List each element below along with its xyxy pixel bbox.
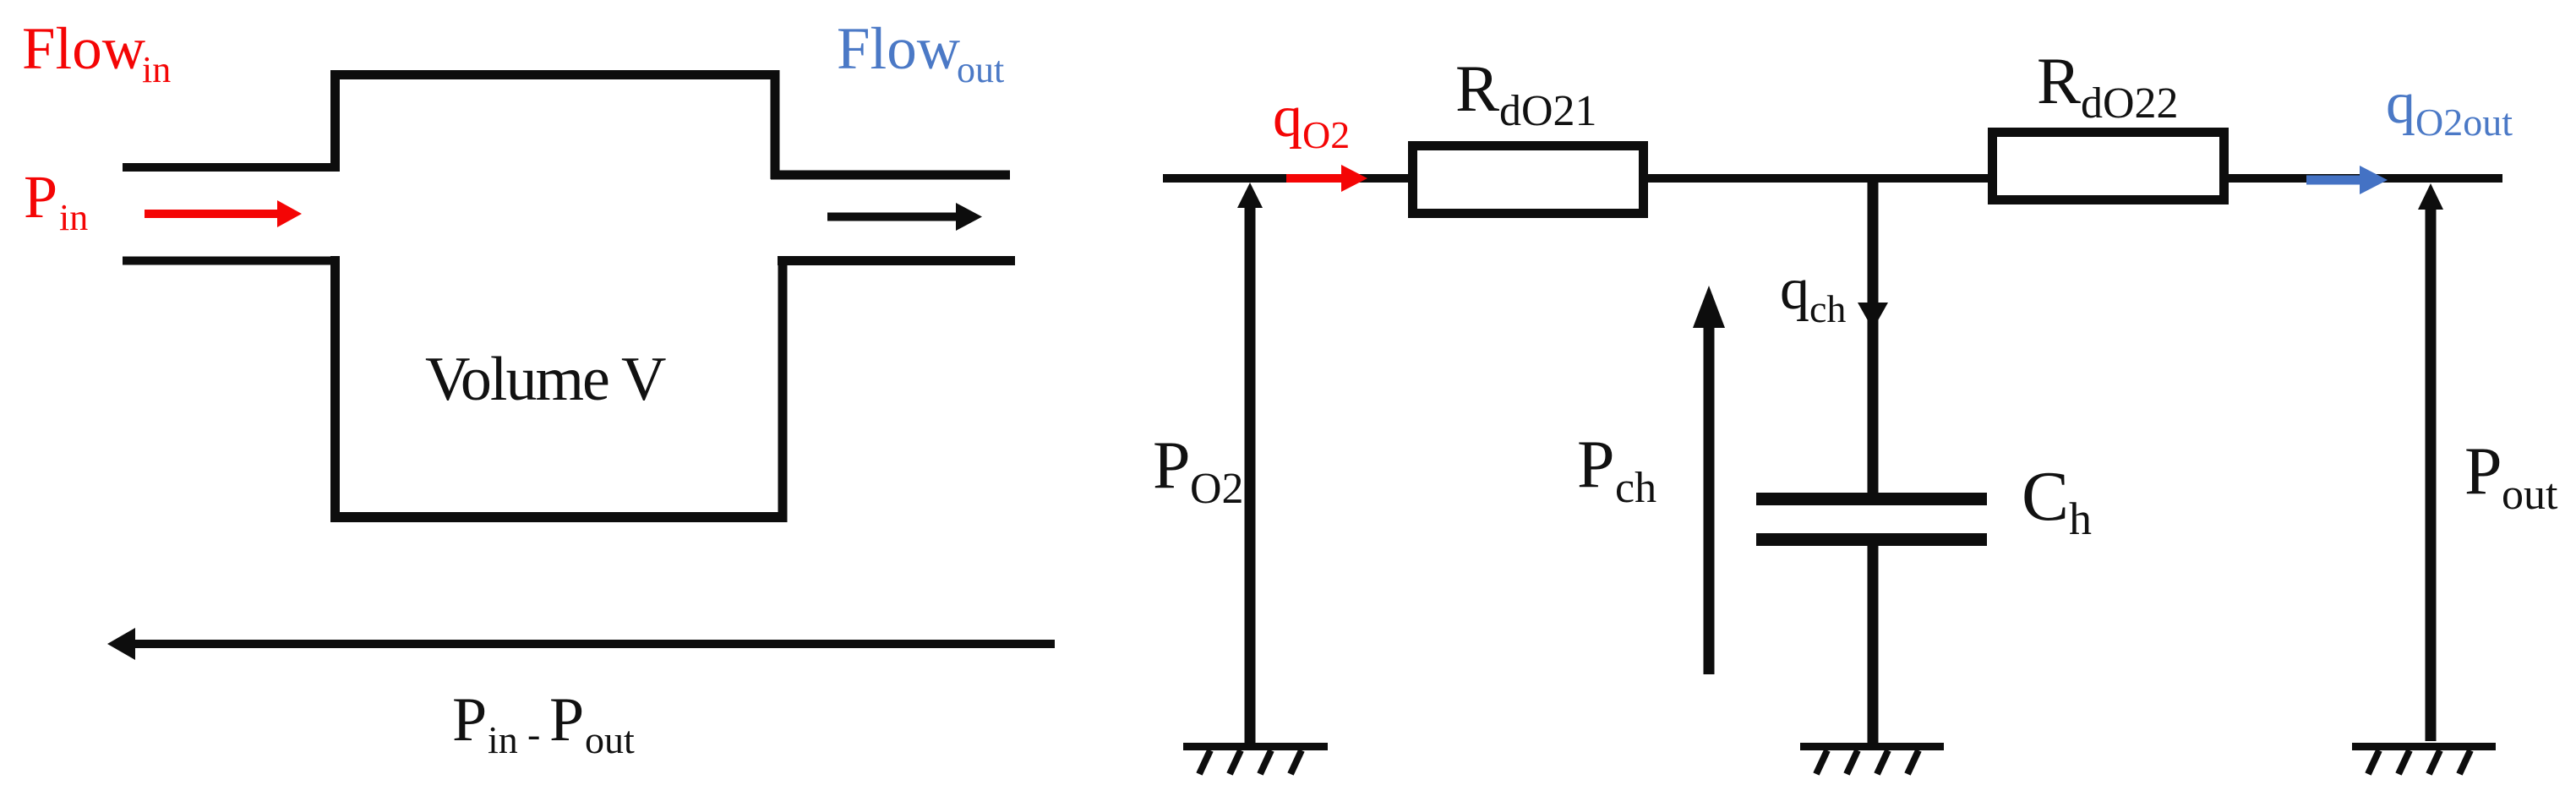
label P_ch [1577, 428, 1656, 512]
current arrowhead q_ch (down) [1858, 303, 1888, 330]
volume box bottom wall [330, 512, 786, 522]
volume box top wall [330, 70, 776, 79]
pressure difference arrow (long, pointing left) [107, 628, 1055, 660]
svg-text:out: out [957, 49, 1004, 90]
ground under capacitor [1800, 747, 1944, 775]
svg-text:O2: O2 [1190, 465, 1244, 513]
node P_out potential arrow (up) [2418, 183, 2443, 741]
ground under P_out [2352, 747, 2496, 775]
label P_out [2464, 434, 2558, 519]
svg-text:ch: ch [1809, 287, 1846, 330]
svg-text:C: C [2022, 457, 2069, 536]
svg-text:out: out [585, 718, 635, 761]
label P_in - P_out [452, 685, 635, 761]
svg-text:O2: O2 [1302, 113, 1350, 156]
svg-text:dO22: dO22 [2081, 79, 2179, 128]
flow arrow out (black) [827, 203, 982, 231]
svg-text:P: P [24, 163, 57, 231]
volume box right wall lower segment [778, 257, 788, 522]
svg-text:q: q [1780, 257, 1809, 322]
svg-text:R: R [1455, 52, 1499, 125]
pipe lower-right wall [778, 256, 1015, 265]
label q_O2 (red) [1273, 85, 1350, 156]
capacitor C_h bottom plate [1756, 533, 1987, 546]
label Flow_out [837, 16, 1004, 90]
svg-text:in: in [59, 197, 88, 238]
current arrow q_O2 (red) [1286, 165, 1367, 192]
svg-text:R: R [2037, 44, 2081, 117]
wire: main horizontal net [1163, 174, 2502, 183]
volume box right wall upper segment [771, 70, 780, 179]
label C_h [2022, 457, 2092, 544]
volume box left wall upper segment [330, 70, 340, 172]
svg-text:P: P [549, 685, 584, 755]
wire: capacitor branch from node [1868, 174, 1879, 500]
label q_ch [1780, 257, 1846, 330]
label q_O2out (blue) [2386, 71, 2513, 144]
volume box left wall lower segment [330, 256, 340, 522]
svg-text:Volume V: Volume V [425, 345, 666, 414]
svg-text:in: in [488, 718, 518, 761]
node P_O2 potential arrow (up) [1237, 183, 1263, 743]
label Flow_in [22, 16, 171, 90]
svg-text:q: q [1273, 85, 1302, 150]
ground under P_O2 [1183, 747, 1328, 775]
label P_O2 [1153, 428, 1244, 513]
svg-text:P: P [452, 685, 487, 755]
svg-text:h: h [2069, 493, 2092, 544]
pipe upper-left wall [123, 163, 340, 172]
svg-text:q: q [2386, 71, 2415, 136]
svg-text:P: P [1153, 428, 1191, 503]
svg-text:P: P [2464, 434, 2502, 509]
wire: capacitor lower lead [1868, 544, 1879, 743]
label P_in [24, 163, 88, 238]
svg-text:dO21: dO21 [1499, 87, 1597, 135]
capacitor C_h top plate [1756, 493, 1987, 505]
svg-text:-: - [527, 712, 540, 755]
node P_ch potential arrow (up) [1693, 286, 1725, 674]
current arrow q_O2out (blue) [2306, 166, 2388, 194]
resistor R_dO21 [1413, 146, 1644, 214]
resistor R_dO22 [1993, 133, 2224, 200]
svg-text:out: out [2502, 471, 2558, 519]
label R_dO21 [1455, 52, 1597, 135]
flow arrow in (red) [145, 200, 302, 227]
pipe lower-left wall [123, 257, 340, 265]
label R_dO22 [2037, 44, 2179, 128]
pipe upper-right wall [771, 171, 1010, 180]
svg-text:ch: ch [1615, 464, 1656, 512]
svg-text:Flow: Flow [837, 16, 960, 82]
svg-text:O2out: O2out [2415, 101, 2513, 144]
svg-text:P: P [1577, 428, 1615, 502]
svg-text:Flow: Flow [22, 16, 145, 82]
svg-text:in: in [142, 49, 171, 90]
